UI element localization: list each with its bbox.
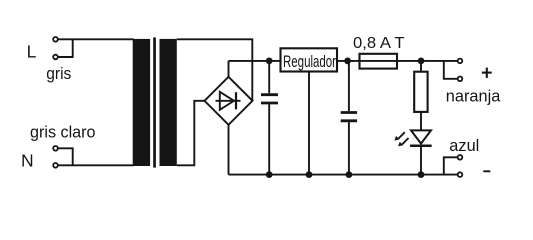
LED D1 cathode bar [410, 144, 432, 147]
transformer T1 core [153, 37, 156, 167]
wire plus terminal bracket [444, 61, 457, 79]
terminal minus lower circle [458, 172, 463, 177]
LED emission arrow 1 [394, 132, 404, 140]
wire L terminal bracket [59, 39, 73, 57]
capacitor C2 [341, 113, 357, 121]
LED emission arrow 2 [398, 138, 408, 146]
svg-text:L: L [27, 42, 37, 62]
node junction C1 bottom [266, 171, 273, 178]
wire regulator ground lead [308, 72, 310, 175]
svg-text:0,8 A T: 0,8 A T [353, 35, 405, 52]
wire N to transformer primary [59, 164, 134, 166]
bridge rectifier B1 diamond [205, 77, 253, 125]
svg-text:naranja: naranja [446, 87, 501, 106]
wire bridge DC- drop [228, 125, 230, 175]
wire secondary top to bridge AC1 [177, 39, 253, 101]
label plus sign [482, 68, 492, 78]
wire C2 lower lead [348, 122, 350, 174]
terminal L lower circle [53, 55, 58, 60]
wire resistor upper lead [420, 61, 422, 72]
node junction C1 top [266, 58, 273, 65]
wire through fuse [360, 60, 398, 62]
terminal N upper circle [53, 146, 58, 151]
wire bridge DC+ riser [228, 61, 230, 77]
svg-text:N: N [21, 150, 34, 170]
svg-text:gris: gris [46, 65, 71, 83]
bridge diode symbol [216, 92, 241, 110]
regulator U1 box [281, 48, 338, 71]
terminal plus upper circle [458, 59, 463, 64]
node junction LED bottom [418, 171, 425, 178]
transformer T1 primary winding [133, 39, 150, 166]
svg-text:azul: azul [449, 136, 479, 155]
wire L to transformer primary [59, 38, 134, 40]
wire positive rail to regulator [229, 60, 281, 62]
wire regulator output rail [337, 60, 457, 62]
terminal L upper circle [53, 37, 58, 42]
wire negative bottom bus [229, 174, 458, 176]
wire C1 upper lead [268, 61, 270, 93]
wire N terminal bracket [59, 148, 73, 165]
capacitor C1 [261, 95, 278, 103]
wire secondary bottom to bridge AC2 [177, 101, 205, 166]
wire minus terminal bracket [444, 157, 457, 174]
svg-text:gris claro: gris claro [30, 124, 96, 142]
wire C1 lower lead [268, 104, 270, 174]
terminal N lower circle [53, 163, 58, 168]
svg-text:Regulador: Regulador [283, 52, 336, 71]
node junction C2 bottom [346, 171, 353, 178]
wire LED lower lead [420, 146, 422, 175]
terminal plus lower circle [458, 77, 463, 82]
fuse F1 body [360, 54, 398, 69]
terminal minus upper circle [458, 155, 463, 160]
transformer T1 secondary winding [160, 39, 177, 166]
resistor R1 [414, 72, 427, 112]
node junction resistor top [418, 58, 425, 65]
wire C2 upper lead [348, 61, 350, 111]
label minus sign [483, 170, 490, 172]
LED D1 triangle [411, 130, 431, 143]
node junction regulator ground [306, 171, 313, 178]
node junction C2 top [344, 58, 351, 65]
wire resistor to LED [420, 112, 422, 130]
